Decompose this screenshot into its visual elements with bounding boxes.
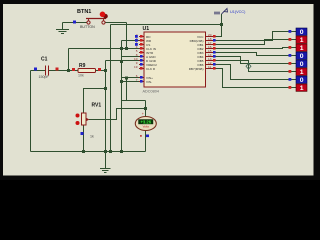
- wire clock horizontal to CLK IN: [69, 48, 140, 50]
- svg-text:ADC0804: ADC0804: [143, 89, 159, 93]
- wire VCC vertical: [214, 14, 222, 37]
- logic probe DB1=1: [296, 36, 307, 44]
- svg-text:U1(VCC): U1(VCC): [230, 10, 246, 14]
- wire btn-left to ground: [63, 22, 89, 24]
- wire pot top riser: [84, 89, 106, 114]
- wire DB4 route: [214, 57, 296, 64]
- svg-text:0: 0: [300, 29, 304, 36]
- wire DB7 route: [214, 69, 296, 88]
- wire meter top vertical: [145, 101, 147, 118]
- voltmeter: [135, 112, 156, 137]
- wire pot wiper to meter line: [89, 109, 146, 120]
- chip left pin labels: [146, 35, 157, 84]
- wire second vertical bus: [121, 41, 123, 152]
- svg-text:RV1: RV1: [92, 103, 102, 109]
- wire C1 to R9: [48, 70, 78, 72]
- logic probe DB7=1: [296, 84, 307, 92]
- wire A GND stub: [122, 56, 140, 58]
- svg-text:C1: C1: [41, 57, 48, 63]
- wire VREF row horizontal: [106, 60, 140, 62]
- state indicator RV1 bottom: [81, 132, 84, 135]
- wire bottom ground rail: [31, 151, 146, 153]
- svg-text:U1: U1: [143, 26, 150, 32]
- svg-text:1k: 1k: [90, 135, 94, 139]
- logic probe DB6=0: [296, 76, 307, 84]
- wire btn-right to vertical: [104, 22, 127, 24]
- schematic sheet background: [3, 4, 314, 176]
- wire C1 left segment: [31, 70, 46, 72]
- left pin state indicators: [135, 35, 143, 83]
- svg-text:Volts: Volts: [143, 124, 150, 128]
- svg-text:BTN1: BTN1: [77, 9, 91, 15]
- wire DB3 route: [214, 53, 296, 56]
- state indicator C1 left: [34, 68, 37, 71]
- logic probe DB5=1: [296, 68, 307, 76]
- svg-text:150pF: 150pF: [39, 75, 50, 79]
- wire riser C1-R9 junction: [68, 49, 70, 71]
- resistor R9: [78, 69, 96, 73]
- wire bottom ground stem: [105, 152, 107, 169]
- wire WR stub: [122, 40, 140, 42]
- wire long horizontal power row: [111, 24, 222, 26]
- right pin state indicators: [213, 35, 216, 70]
- wire pot bottom to rail: [83, 125, 85, 152]
- svg-text:1: 1: [300, 69, 304, 76]
- svg-text:DB7(MSB): DB7(MSB): [189, 67, 204, 71]
- svg-text:1: 1: [300, 45, 304, 52]
- chip right pin stubs: [206, 37, 215, 69]
- wire mid vertical V_A: [105, 61, 107, 152]
- wire DB6 route: [214, 65, 296, 80]
- state indicator C1 right: [56, 68, 59, 71]
- svg-text:BUTTON: BUTTON: [80, 25, 95, 29]
- logic probe DB3=0: [296, 52, 307, 60]
- wire DB5 route: [214, 61, 296, 72]
- wire vertical from button down to clock line: [126, 23, 128, 49]
- right pin numbers: [208, 33, 212, 69]
- capacitor C1: [46, 66, 49, 76]
- state indicator R9 left: [72, 68, 75, 71]
- logic probe DB2=1: [296, 44, 307, 52]
- button BTN1: [86, 12, 108, 25]
- svg-text:7: 7: [136, 78, 138, 82]
- wire left tall vertical to rail: [110, 25, 112, 152]
- svg-text:0: 0: [300, 61, 304, 68]
- wire DB2 route: [214, 48, 296, 49]
- wire VIN- stub: [122, 81, 140, 83]
- svg-text:R9: R9: [79, 63, 86, 69]
- wire DB0 route: [214, 32, 296, 41]
- state indicator (blue) at button: [73, 21, 76, 24]
- diamond marker on DB5 route: [246, 64, 251, 70]
- left pin numbers: [134, 33, 138, 82]
- svg-text:1: 1: [300, 37, 304, 44]
- probe stub state indicators: [289, 30, 292, 89]
- svg-text:10k: 10k: [78, 74, 84, 78]
- svg-text:1: 1: [300, 85, 304, 92]
- svg-text:VIN-: VIN-: [146, 80, 152, 84]
- svg-text:0: 0: [300, 77, 304, 84]
- wire VIN+ drop to meter line: [126, 78, 128, 101]
- svg-text:CLK R: CLK R: [146, 67, 156, 71]
- wire voltmeter minus to rail: [145, 130, 147, 152]
- potentiometer RV1: [76, 113, 90, 125]
- wire VIN+ stub: [122, 77, 140, 79]
- chip right pin labels: [189, 35, 205, 71]
- chip left pin stubs: [139, 37, 144, 82]
- wire DB1 route: [214, 40, 296, 45]
- svg-text:0: 0: [300, 53, 304, 60]
- wire C1 ground drop: [30, 71, 32, 152]
- logic probe DB0=0: [296, 28, 307, 36]
- state indicator R9 right: [98, 68, 101, 71]
- IC U1 ADC0804 body: [144, 32, 206, 87]
- ground bottom: [100, 169, 111, 173]
- wire R9 right to mid vertical: [96, 70, 106, 72]
- logic probe DB4=0: [296, 60, 307, 68]
- wire ground stem top-left: [62, 23, 64, 30]
- power terminal U1(VCC): [214, 9, 228, 15]
- svg-text:19: 19: [134, 65, 138, 69]
- wire bus to meter horizontal: [122, 100, 146, 102]
- svg-text:11: 11: [208, 65, 211, 69]
- ground top-left: [56, 30, 69, 34]
